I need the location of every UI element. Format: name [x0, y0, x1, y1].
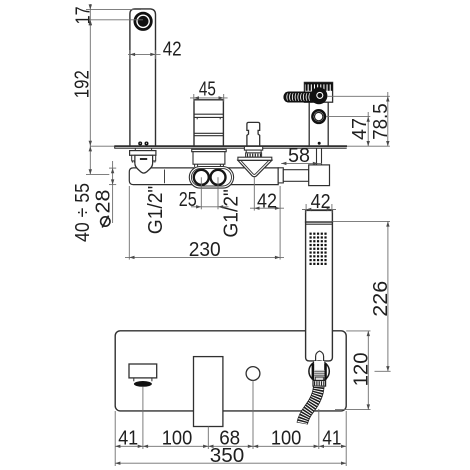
deck line: [90, 146, 390, 149]
dimension 58: [281, 144, 322, 167]
check valve column: [247, 122, 260, 146]
dimension 78.5: [328, 92, 393, 146]
extension plan left edge: [114, 411, 116, 466]
dimension 17: [72, 4, 143, 25]
extension handle center: [207, 427, 209, 450]
dimension 230: [125, 186, 284, 261]
plan rectangle: [115, 331, 346, 411]
svg-text:192: 192: [71, 70, 94, 98]
diverter flange stack: [244, 146, 262, 157]
extension plan right edge: [345, 411, 347, 466]
svg-text:41: 41: [322, 426, 341, 449]
plan spout: [129, 364, 157, 387]
dimension 42 spout: [128, 38, 182, 61]
label G1/2 right: [220, 189, 243, 238]
hose outlet pipe: [283, 170, 308, 182]
svg-text:42: 42: [163, 38, 182, 61]
dimension 42 diverter: [250, 178, 284, 260]
svg-text:100: 100: [271, 426, 302, 449]
svg-text:78.5: 78.5: [369, 103, 392, 140]
svg-text:G1/2": G1/2": [220, 189, 243, 238]
shower nozzle tip: [316, 351, 324, 362]
valve group stadium: [189, 167, 233, 189]
svg-text:45: 45: [199, 77, 216, 100]
plan handle plate: [194, 357, 223, 427]
elbow block: [309, 165, 330, 186]
svg-text:G1/2": G1/2": [144, 186, 167, 235]
dimension 45: [190, 77, 228, 101]
spout check valve cup: [135, 155, 153, 173]
extension spout center: [142, 386, 144, 449]
svg-text:17: 17: [72, 6, 95, 24]
svg-text:42: 42: [311, 190, 331, 213]
svg-text:100: 100: [162, 426, 193, 449]
svg-text:47: 47: [348, 118, 371, 140]
hose ball joint: [309, 361, 329, 381]
svg-text:42: 42: [257, 189, 277, 212]
spout outlet: [135, 13, 151, 29]
cartridge body: [194, 100, 223, 146]
spout body: [130, 9, 156, 146]
holder socket rings: [312, 110, 325, 123]
dimension 120: [335, 331, 372, 410]
svg-text:58: 58: [288, 144, 310, 167]
dimension 47: [326, 112, 371, 146]
dimension 192: [71, 20, 94, 146]
dimension 42 shower: [302, 190, 336, 213]
shower holder column: [309, 101, 328, 147]
dimension phi28: [91, 161, 116, 228]
svg-text:25: 25: [179, 188, 197, 211]
dimension chain 41-100-68-100-41: [115, 426, 346, 449]
holder knurled cap: [304, 82, 332, 102]
extension shower center: [318, 409, 320, 449]
spout flange below deck: [130, 148, 156, 162]
diverter knob disc: [310, 87, 327, 104]
diverter lever: [284, 92, 315, 101]
svg-text:41: 41: [118, 426, 138, 449]
dimension 40-55: [71, 146, 109, 242]
extension knob center: [252, 380, 254, 449]
svg-text:226: 226: [369, 281, 392, 317]
dimension 25: [179, 177, 229, 211]
rough-in body: [129, 168, 278, 185]
svg-text:120: 120: [349, 352, 372, 386]
cartridge escutcheon: [192, 149, 227, 167]
hand shower head: [306, 210, 333, 361]
svg-text:230: 230: [189, 238, 221, 261]
dimension 226: [332, 221, 392, 371]
svg-text:28: 28: [91, 190, 114, 214]
svg-text:350: 350: [210, 444, 245, 467]
spout base screw dots: [138, 142, 148, 146]
valve circles: [194, 170, 226, 185]
plan diverter knob: [246, 367, 260, 381]
shower spray grid: [310, 233, 327, 265]
flexible hose: [302, 387, 319, 424]
holder shank lines: [317, 148, 322, 165]
holder base dot: [318, 142, 321, 145]
diverter funnel: [238, 157, 272, 177]
hose outlet cap: [278, 168, 283, 183]
label G1/2 left: [144, 186, 167, 235]
hose nut: [313, 381, 326, 387]
dimension 350: [115, 444, 346, 467]
